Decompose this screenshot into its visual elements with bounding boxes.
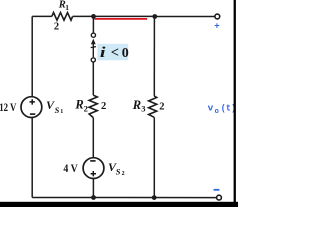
svg-text:+: + — [214, 22, 219, 32]
VS1 minus sign — [30, 113, 35, 115]
label + (output polarity, blue) — [214, 22, 219, 32]
svg-text:1: 1 — [60, 109, 63, 115]
page border: bottom bar — [0, 202, 238, 207]
wire: R3 to bottom rail — [153, 117, 155, 197]
value label 2 (R3) — [159, 102, 164, 113]
resistor R2 — [89, 95, 97, 117]
svg-text:o: o — [215, 108, 219, 116]
svg-text:2: 2 — [84, 103, 88, 113]
wire: node B to top output terminal — [155, 16, 215, 18]
label VS1 — [46, 98, 63, 115]
label R2 — [74, 98, 87, 114]
node B junction dot — [152, 14, 157, 19]
svg-text:2: 2 — [122, 171, 125, 177]
VS2 minus sign — [90, 160, 95, 162]
label vo(t) output voltage (blue) — [208, 103, 237, 117]
svg-text:R: R — [74, 98, 83, 112]
wire: left vertical upper (corner to VS1) — [31, 16, 33, 96]
label i < 0 (highlighted) — [97, 44, 128, 61]
value label 2 (R1) — [54, 22, 59, 33]
red highlight wire under top segment — [95, 18, 148, 20]
value label 2 (R2) — [101, 101, 106, 112]
wire: bottom rail — [32, 197, 216, 199]
svg-text:R: R — [132, 98, 141, 112]
label R1 — [58, 0, 70, 12]
wire: gap to R2 — [92, 62, 94, 95]
wire: VS2 to bottom rail — [92, 179, 94, 198]
label R3 — [132, 98, 146, 114]
svg-text:2: 2 — [101, 101, 106, 112]
svg-text:v: v — [208, 103, 214, 114]
svg-text:0: 0 — [122, 46, 129, 61]
svg-text:3: 3 — [141, 104, 145, 114]
VS1 plus sign — [30, 99, 35, 104]
label VS2 — [108, 160, 125, 177]
terminal: bottom output (open circle) — [217, 195, 222, 200]
svg-text:12 V: 12 V — [0, 100, 17, 114]
svg-text:<: < — [111, 45, 119, 61]
wire: left vertical lower (VS1 to bottom rail) — [31, 118, 33, 198]
label - (output polarity, blue) — [214, 189, 220, 191]
wire: top-left horizontal from corner to R1 — [32, 15, 52, 17]
current arrow i (pointing up) — [91, 39, 96, 57]
source VS2 circle (4V) — [83, 158, 104, 179]
label 12 V — [0, 100, 17, 114]
gap terminal lower (small open circle) — [91, 58, 95, 62]
node D junction dot (bottom right) — [152, 195, 157, 200]
resistor R1 — [52, 13, 73, 21]
svg-text:S: S — [55, 105, 60, 115]
wire: node A down to gap terminal — [92, 16, 94, 33]
label 4 V — [63, 161, 78, 175]
page border: right vertical rule — [234, 0, 236, 207]
wire: R2 to VS2 — [92, 118, 94, 158]
svg-text:2: 2 — [54, 22, 59, 33]
node C junction dot (bottom middle) — [91, 195, 96, 200]
svg-text:2: 2 — [159, 102, 164, 113]
VS2 plus sign — [91, 171, 96, 176]
source VS1 circle (12V) — [21, 97, 42, 118]
terminal: top output (open circle) — [215, 14, 220, 19]
svg-text:1: 1 — [65, 3, 69, 12]
wire: node A to node B (top middle) — [94, 15, 155, 17]
svg-text:4 V: 4 V — [63, 161, 78, 175]
svg-text:S: S — [116, 167, 121, 177]
resistor R3 — [149, 96, 157, 117]
gap terminal upper (small open circle) — [91, 33, 95, 37]
wire: node B down to R3 — [153, 17, 155, 96]
wire: R1 to node A — [73, 15, 94, 17]
node A junction dot — [91, 14, 96, 19]
